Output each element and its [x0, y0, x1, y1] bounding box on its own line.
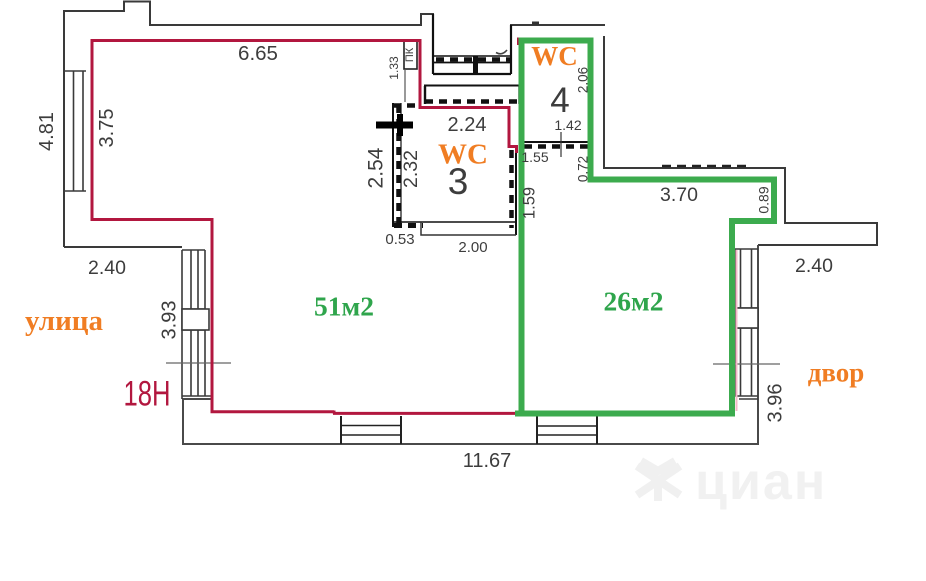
svg-text:2.54: 2.54: [365, 147, 388, 188]
svg-text:2.32: 2.32: [400, 150, 422, 188]
WC4 bottom dashed wall: [524, 132, 589, 157]
green unit outline 26m2: [522, 41, 775, 414]
green bottom left extension: [515, 411, 525, 417]
svg-text:0.53: 0.53: [385, 231, 414, 248]
svg-text:6.65: 6.65: [238, 42, 278, 65]
svg-text:WC: WC: [531, 41, 578, 71]
WC3 bottom wall: [393, 222, 516, 235]
PK box: [404, 41, 417, 69]
WC3 top wall: [424, 86, 521, 105]
pier box left: [182, 309, 209, 330]
svg-text:1.55: 1.55: [521, 149, 548, 165]
window upper-left: [64, 71, 86, 191]
outer wall right/bottom: [183, 245, 758, 444]
wall right of WC4: [604, 36, 877, 245]
svg-text:3.70: 3.70: [660, 184, 698, 206]
svg-text:11.67: 11.67: [463, 450, 512, 472]
svg-text:18Н: 18Н: [124, 375, 171, 414]
red nub at green corner: [517, 38, 520, 46]
svg-text:ПК: ПК: [404, 47, 416, 62]
WC3 right wall dashed: [512, 147, 517, 235]
svg-text:3.75: 3.75: [96, 109, 118, 148]
svg-text:4.81: 4.81: [36, 112, 58, 151]
svg-text:2.40: 2.40: [795, 255, 833, 277]
svg-text:0.72: 0.72: [576, 156, 591, 182]
svg-text:26м2: 26м2: [604, 286, 664, 317]
dim tick left: [166, 362, 231, 364]
shaft box above WC3: [433, 14, 511, 74]
svg-text:3.93: 3.93: [158, 301, 180, 340]
bottom window B: [537, 416, 597, 444]
dim line 1.33: [404, 69, 406, 102]
svg-text:циан: циан: [695, 453, 827, 511]
cross mark: [376, 122, 413, 129]
window band right yard side: [735, 249, 758, 399]
svg-text:1.33: 1.33: [387, 56, 401, 80]
watermark cian logo: [637, 461, 680, 501]
dashed double line on wall y168: [662, 165, 751, 168]
pier box right: [735, 308, 758, 328]
svg-text:1.59: 1.59: [520, 187, 538, 219]
wall left-bottom corner: [64, 246, 182, 248]
small check mark near top wall: [496, 50, 507, 54]
svg-text:0.89: 0.89: [756, 186, 772, 213]
svg-text:3.96: 3.96: [764, 384, 786, 423]
svg-text:2.06: 2.06: [576, 67, 591, 93]
svg-text:2.24: 2.24: [448, 114, 487, 136]
red unit outline 18N: [91, 39, 518, 414]
svg-text:51м2: 51м2: [314, 291, 374, 322]
pink line beside green right side: [736, 250, 738, 411]
svg-text:2.00: 2.00: [458, 239, 487, 256]
window band left street side: [182, 250, 212, 399]
svg-text:2.40: 2.40: [88, 257, 126, 279]
tick on top wall: [532, 22, 539, 26]
outer wall top-left: [64, 2, 433, 248]
svg-text:улица: улица: [25, 305, 103, 337]
outer wall top-right: [511, 25, 605, 56]
svg-text:WC: WC: [438, 139, 488, 171]
svg-text:4: 4: [550, 81, 569, 120]
WC3 left wall top dashes: [393, 103, 420, 108]
dim tick right: [713, 363, 780, 365]
WC3 left wall dashed: [393, 103, 401, 227]
svg-text:двор: двор: [808, 358, 865, 388]
bottom window A: [341, 416, 401, 444]
